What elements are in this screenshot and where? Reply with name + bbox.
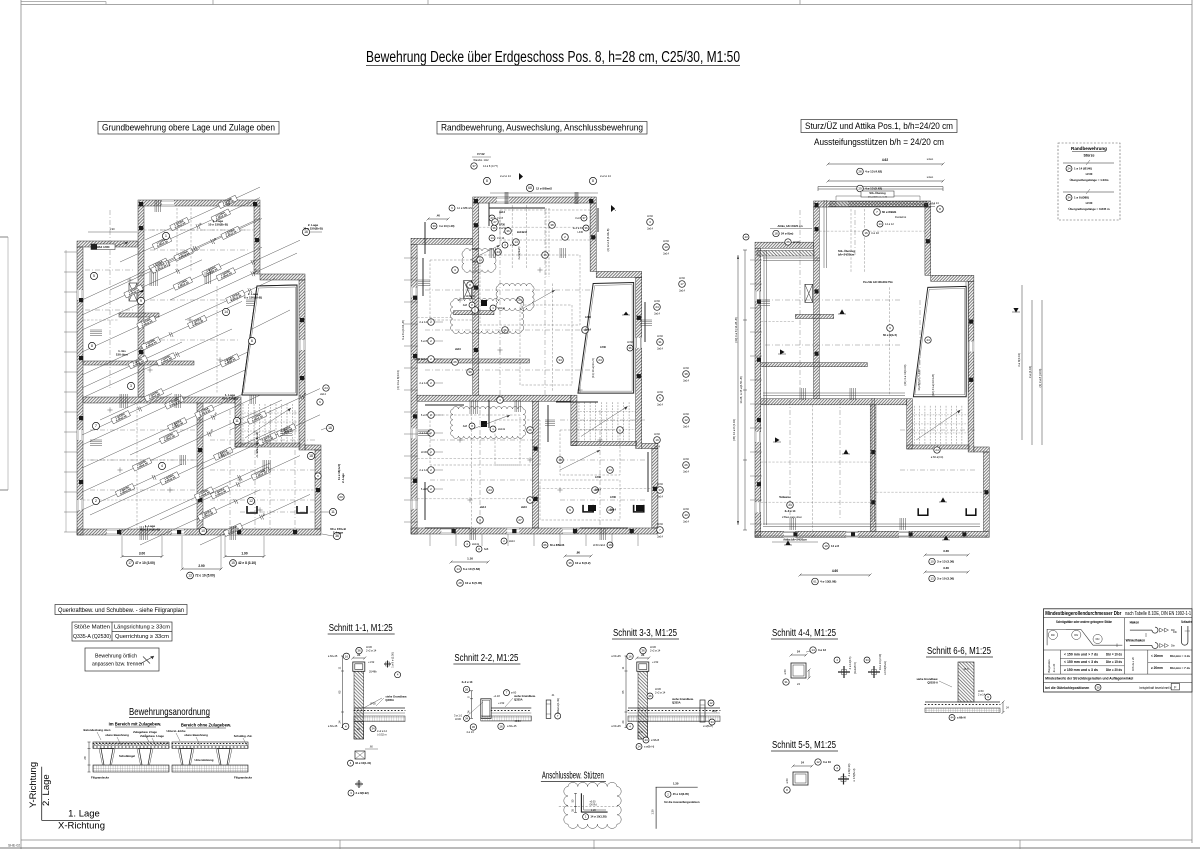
svg-text:12: 12 [816,760,820,764]
svg-text:LF30: LF30 [657,391,663,394]
svg-text:(42) 41 ø(4.04+B): (42) 41 ø(4.04+B) [931,374,935,396]
svg-text:Mindestwerte der Streckbiegera: Mindestwerte der Streckbiegeradien und A… [1045,677,1133,681]
svg-text:2ø14: 2ø14 [683,521,689,524]
svg-text:37: 37 [472,164,476,168]
svg-text:60 e 150(B+B): 60 e 150(B+B) [140,527,160,531]
svg-text:36: 36 [335,534,339,538]
svg-text:LF30: LF30 [654,300,660,303]
svg-text:12 ø 8/BmtS: 12 ø 8/BmtS [457,206,472,210]
svg-text:2ø14: 2ø14 [657,404,663,407]
svg-text:3 ø (4.04): 3 ø (4.04) [1028,366,1032,378]
svg-text:3 ø 8(4.04): 3 ø 8(4.04) [1017,353,1021,367]
svg-text:ø 60 ø(C4): ø 60 ø(C4) [931,455,944,459]
svg-text:12: 12 [709,701,713,705]
svg-text:31: 31 [784,680,788,684]
svg-text:LF30: LF30 [683,508,689,511]
svg-text:Schnitt 5-5, M1:25: Schnitt 5-5, M1:25 [772,740,836,751]
svg-text:2ø14: 2ø14 [683,426,689,429]
svg-text:.60: .60 [369,746,373,749]
svg-text:obere Bewehrung: obere Bewehrung [105,733,129,737]
svg-text:2ø14ü: 2ø14ü [498,307,506,310]
svg-text:14: 14 [514,240,518,244]
svg-text:15: 15 [231,561,235,565]
svg-text:8: 8 [486,179,488,183]
svg-text:Dbr,min = 7 ds: Dbr,min = 7 ds [1170,666,1190,670]
svg-text:40: 40 [684,513,688,517]
svg-text:3 ø 14: 3 ø 14 [497,236,505,240]
svg-text:38: 38 [684,372,688,376]
svg-text:2: 2 [95,499,97,503]
svg-text:26: 26 [648,694,652,698]
svg-text:1 ø 14 (Ø140): 1 ø 14 (Ø140) [1074,167,1092,171]
svg-text:Q2530 A: Q2530 A [927,681,938,685]
svg-text:Stöße Matten: Stöße Matten [74,625,110,631]
svg-text:ø 60: ø 60 [511,690,517,694]
svg-text:a 60+45: a 60+45 [611,724,621,728]
svg-text:2ø14: 2ø14 [654,313,660,316]
svg-text:-1. B/E+ 110 (B+H): -1. B/E+ 110 (B+H) [255,432,259,458]
svg-text:2ø14: 2ø14 [610,509,616,512]
svg-text:60 ø 8/BmtS: 60 ø 8/BmtS [550,544,565,547]
svg-text:LF30: LF30 [683,413,689,416]
svg-text:1.90: 1.90 [208,428,214,435]
svg-text:30bar ø(1.43): 30bar ø(1.43) [556,698,560,714]
svg-text:44: 44 [608,468,612,472]
svg-text:42 e 8 (3.10): 42 e 8 (3.10) [238,561,256,565]
svg-text:bei die Gütekohlepositionen: bei die Gütekohlepositionen [1045,686,1089,690]
svg-text:2 ø 14: 2 ø 14 [419,468,427,472]
svg-text:3 ø 13 (3.36): 3 ø 13 (3.36) [937,560,954,564]
svg-text:60 ø 8(4+5): 60 ø 8(4+5) [883,333,897,337]
svg-text:24: 24 [797,650,800,654]
svg-text:3ø8: 3ø8 [463,304,468,307]
svg-text:4: 4 [161,464,163,468]
svg-text:Bewehrung Decke über Erdgescho: Bewehrung Decke über Erdgeschoss Pos. 8,… [366,49,740,66]
svg-text:2 ø 14: 2 ø 14 [419,320,427,324]
svg-text:2ø14: 2ø14 [647,228,653,231]
svg-text:2+2 ø 14: 2+2 ø 14 [655,691,666,695]
svg-text:(2) 12 ø 8 (4.04+B): (2) 12 ø 8 (4.04+B) [606,229,610,252]
svg-text:10: 10 [201,529,205,533]
svg-text:2+2 ø 14: 2+2 ø 14 [650,649,661,653]
svg-text:6 ø 8: 6 ø 8 [421,487,428,491]
svg-text:65: 65 [338,690,342,693]
svg-text:Q335A: Q335A [672,701,681,705]
svg-text:+1.52: +1.52 [652,661,659,664]
svg-text:Übergreifungslänge = 1.03m: Übergreifungslänge = 1.03m [1070,178,1109,182]
svg-text:4.62: 4.62 [882,158,888,162]
svg-text:36: 36 [506,229,510,233]
svg-text:2ø10: 2ø10 [521,506,527,509]
svg-text:Stb.-Überzug: Stb.-Überzug [838,249,855,253]
svg-text:10 ø 8 (5.35): 10 ø 8 (5.35) [465,581,482,585]
svg-text:Pos.Stb 1x8 100x24/2.75m: Pos.Stb 1x8 100x24/2.75m [863,281,893,284]
svg-text:16: 16 [345,654,349,658]
svg-text:Bereich ohne Zulagebew.: Bereich ohne Zulagebew. [181,723,231,728]
svg-text:61: 61 [813,580,817,584]
svg-text:LF30: LF30 [657,483,663,486]
svg-text:Schlaufen: Schlaufen [1181,620,1192,624]
svg-text:unten: unten [927,157,934,161]
svg-text:30: 30 [432,224,436,228]
svg-text:44: 44 [926,338,930,342]
svg-text:16: 16 [304,230,308,234]
svg-text:ü 0.52 m: ü 0.52 m [377,734,387,737]
svg-text:3 ø 1.0: 3 ø 1.0 [454,714,463,718]
svg-text:33: 33 [658,488,662,492]
svg-text:10: 10 [930,560,934,564]
svg-text:7: 7 [95,424,97,428]
svg-text:(41) 4 ø 13(6.00): (41) 4 ø 13(6.00) [903,364,907,385]
svg-text:24: 24 [801,761,804,765]
svg-text:34: 34 [710,720,714,724]
svg-text:4 ø 13 (4.62): 4 ø 13 (4.62) [865,170,882,174]
svg-text:(43) 6 ø 8 (14.28+B): (43) 6 ø 8 (14.28+B) [734,317,738,342]
svg-text:11: 11 [338,666,342,669]
svg-text:34: 34 [1067,196,1071,200]
svg-text:Attika_b/h=24/20 cm: Attika_b/h=24/20 cm [777,224,803,228]
svg-text:a 68+N: a 68+N [957,716,966,720]
svg-text:27: 27 [518,518,522,522]
svg-text:24: 24 [488,488,492,492]
svg-text:Dunkelrot: Dunkelrot [895,215,906,219]
svg-text:38: 38 [550,223,554,227]
svg-text:(11) 10 ø(4m+5): (11) 10 ø(4m+5) [591,358,595,378]
svg-text:47 e 10 (3.00): 47 e 10 (3.00) [135,561,155,565]
svg-text:44: 44 [950,716,954,720]
svg-text:LF30: LF30 [679,277,685,280]
svg-text:Filigrandecke: Filigrandecke [91,776,109,780]
svg-text:14: 14 [811,648,815,652]
svg-text:24: 24 [655,305,659,309]
svg-text:siehe Grundbew.: siehe Grundbew. [514,694,536,698]
svg-text:Unterstützung: Unterstützung [195,758,214,762]
svg-text:Mindestbiegerollendurchmesser: Mindestbiegerollendurchmesser Dbr [1045,611,1121,617]
svg-text:Schnitt 2-2, M1:25: Schnitt 2-2, M1:25 [454,653,518,664]
svg-text:9: 9 [140,299,142,303]
svg-text:24: 24 [935,448,939,452]
svg-text:2+2 ø 14: 2+2 ø 14 [573,226,584,230]
svg-text:F7.02: F7.02 [477,152,485,156]
svg-text:2.Bew.-lage oben: 2.Bew.-lage oben [782,515,803,519]
svg-text:DIN ds ≤ 20: DIN ds ≤ 20 [1131,657,1135,671]
svg-text:Anschlussbew. Stützen: Anschlussbew. Stützen [542,771,604,782]
svg-text:1: 1 [165,234,167,238]
svg-text:Bewehrungsanordnung: Bewehrungsanordnung [129,706,210,718]
svg-text:a 60+45: a 60+45 [507,724,517,728]
svg-text:35: 35 [571,809,574,812]
svg-text:Winkelhaken: Winkelhaken [1126,639,1146,643]
svg-text:.40: .40 [436,214,440,218]
svg-text:26: 26 [684,463,688,467]
svg-text:3ø8: 3ø8 [463,425,468,428]
svg-text:26: 26 [786,240,790,244]
svg-text:19: 19 [655,438,659,442]
svg-text:44: 44 [644,738,648,742]
svg-text:28: 28 [458,581,462,585]
svg-text:MAX 4.650: MAX 4.650 [97,245,111,249]
svg-text:3.00: 3.00 [139,551,145,555]
svg-text:26: 26 [465,688,469,692]
svg-text:48: 48 [212,237,217,242]
svg-text:2+2 ø 13: 2+2 ø 13 [462,680,473,684]
svg-text:29: 29 [858,187,862,191]
svg-text:LF30: LF30 [654,433,660,436]
svg-text:3 ø 8: 3 ø 8 [575,216,581,220]
svg-text:45 ø 13(3.05): 45 ø 13(3.05) [673,792,689,796]
svg-text:Attika b/h=24/20cm: Attika b/h=24/20cm [783,538,807,542]
svg-text:1.30: 1.30 [651,809,655,815]
svg-text:10 e 150(B+B): 10 e 150(B+B) [208,222,228,226]
svg-text:26: 26 [528,428,532,432]
svg-text:2ø14: 2ø14 [657,496,663,499]
svg-text:ø(B): ø(B) [712,710,717,713]
svg-text:16: 16 [628,654,632,658]
svg-text:LF30: LF30 [1086,201,1093,205]
svg-text:Wandst. 14/2: Wandst. 14/2 [473,158,489,162]
svg-text:11: 11 [621,666,625,669]
svg-text:3 ø 8(0.92): 3 ø 8(0.92) [356,791,369,795]
svg-text:LF30: LF30 [455,717,461,721]
svg-text:Querrichtung ≥ 33cm: Querrichtung ≥ 33cm [115,634,170,640]
svg-text:2ø14: 2ø14 [320,393,326,396]
svg-text:b/h=24/20 cm, C.30: b/h=24/20 cm, C.30 [868,197,888,199]
svg-text:SHE-02: SHE-02 [8,844,20,848]
svg-text:9 ø 8 e(4.04+B): 9 ø 8 e(4.04+B) [401,320,405,340]
svg-text:3 ø 13: 3 ø 13 [818,648,826,652]
svg-text:14(B+S): 14(B+S) [465,295,474,298]
svg-text:44: 44 [496,250,500,254]
svg-text:Bewehrung örtlich: Bewehrung örtlich [95,654,137,660]
svg-text:18: 18 [309,454,313,458]
svg-text:14: 14 [878,222,882,226]
svg-text:Q335-A (Q2530): Q335-A (Q2530) [73,634,111,640]
svg-text:a 60+45: a 60+45 [328,724,338,728]
svg-text:obere Bewehrung: obere Bewehrung [184,733,208,737]
svg-text:1.16: 1.16 [467,557,473,561]
svg-text:LF30: LF30 [585,316,591,319]
svg-text:65: 65 [621,690,625,693]
svg-text:4.60: 4.60 [832,569,838,573]
svg-text:4 ø 8(2.30): 4 ø 8(2.30) [847,764,851,777]
svg-text:Filigrandecke: Filigrandecke [234,776,252,780]
svg-text:Betondeckung oben: Betondeckung oben [84,728,111,732]
svg-text:1.90: 1.90 [241,551,247,555]
svg-text:siehe Grundbew.: siehe Grundbew. [916,677,938,681]
svg-text:2ø14ü: 2ø14ü [498,428,506,431]
svg-text:< 150 mm und > 7 ds: < 150 mm und > 7 ds [1064,653,1098,657]
svg-text:36: 36 [584,226,588,230]
svg-text:.80: .80 [576,551,581,555]
svg-text:8: 8 [91,344,93,348]
svg-text:Zulagebew. 1.lage: Zulagebew. 1.lage [140,734,164,738]
svg-text:Schnitt 1-1, M1:25: Schnitt 1-1, M1:25 [329,623,393,634]
svg-text:6ø8: 6ø8 [484,548,489,551]
svg-text:1 ø 8 e (2.30): 1 ø 8 e (2.30) [391,652,395,668]
svg-text:16: 16 [608,543,612,547]
svg-text:36.5: 36.5 [963,667,969,671]
svg-text:LF30: LF30 [657,523,663,526]
svg-text:4 ø 13(5.08): 4 ø 13(5.08) [820,580,836,584]
svg-text:LF30: LF30 [578,231,584,234]
svg-text:14: 14 [490,236,494,240]
svg-text:2ø14: 2ø14 [679,290,685,293]
svg-text:Schubbügel: Schubbügel [119,754,135,758]
svg-text:2+2 ø 14: 2+2 ø 14 [500,174,511,178]
svg-text:3: 3 [130,384,132,388]
svg-text:2ø14ü: 2ø14ü [472,543,480,546]
svg-text:5: 5 [93,274,95,278]
svg-text:Längsrichtung ≥ 33cm: Längsrichtung ≥ 33cm [114,625,171,631]
svg-text:16: 16 [864,231,868,235]
svg-text:36: 36 [568,561,572,565]
svg-text:36: 36 [472,725,476,729]
svg-text:14 ø 8 (0.77): 14 ø 8 (0.77) [483,164,498,168]
svg-text:19: 19 [824,544,828,548]
svg-text:26: 26 [453,360,457,364]
svg-text:im Bereich mit Zulagebew.: im Bereich mit Zulagebew. [109,722,162,727]
svg-text:X-Richtung: X-Richtung [58,821,105,832]
svg-text:1.20: 1.20 [591,809,596,812]
svg-text:17: 17 [128,561,132,565]
svg-text:Stürze: Stürze [1084,154,1095,158]
svg-text:34 ø 13 (2.30): 34 ø 13 (2.30) [878,654,882,670]
svg-text:11: 11 [235,419,239,423]
svg-text:24: 24 [621,720,625,723]
svg-text:6 ø 8: 6 ø 8 [421,339,428,343]
svg-text:8: 8 [592,179,594,183]
svg-text:LF30: LF30 [370,701,376,705]
svg-text:< 150 mm und < 3 ds: < 150 mm und < 3 ds [1064,660,1098,664]
svg-text:2+2ø(Mat5): 2+2ø(Mat5) [518,246,521,259]
svg-text:1.30: 1.30 [673,782,679,786]
svg-text:(4) 14 ø 8(4.04): (4) 14 ø 8(4.04) [396,370,400,389]
svg-text:28: 28 [858,170,862,174]
svg-text:16: 16 [328,426,332,430]
svg-text:38: 38 [468,370,472,374]
svg-text:24 ø 8(m): 24 ø 8(m) [781,232,793,236]
svg-text:24: 24 [1067,167,1071,171]
svg-text:14 ø 10(1.28): 14 ø 10(1.28) [590,815,606,819]
svg-text:siehe Grundbew.: siehe Grundbew. [385,695,407,699]
svg-text:Unterst.-körbe: Unterst.-körbe [166,729,186,733]
svg-text:31: 31 [658,340,662,344]
svg-text:17: 17 [680,282,684,286]
svg-text:14: 14 [637,745,641,749]
svg-text:Y-Richtung: Y-Richtung [28,762,39,808]
svg-text:24: 24 [797,682,800,686]
svg-text:LF30: LF30 [421,450,428,454]
svg-text:12 ø 8/BmtS: 12 ø 8/BmtS [536,186,552,190]
svg-text:45/84: 45/84 [514,720,521,723]
svg-text:48: 48 [261,512,266,517]
svg-text:Schnitt 4-4, M1:25: Schnitt 4-4, M1:25 [772,628,836,639]
svg-text:37: 37 [582,216,586,220]
svg-text:2ø14: 2ø14 [657,348,663,351]
svg-text:60 ø 8/BüS: 60 ø 8/BüS [882,210,896,214]
svg-text:36: 36 [357,649,361,653]
svg-text:10 ø 8 (6.2): 10 ø 8 (6.2) [575,561,591,565]
svg-text:3.36: 3.36 [943,566,949,570]
svg-text:72 e 10 (5.00): 72 e 10 (5.00) [195,574,215,578]
svg-text:ø 68+B: ø 68+B [651,739,659,742]
svg-text:2. Lage: 2. Lage [333,530,344,534]
svg-text:2 ø 14: 2 ø 14 [419,381,427,385]
svg-text:2+2 ø 14: 2+2 ø 14 [366,649,377,653]
svg-text:2ø10: 2ø10 [455,348,461,351]
svg-text:Dbr = 20 ds: Dbr = 20 ds [1106,668,1122,672]
svg-text:LF30: LF30 [655,687,661,691]
svg-text:50: 50 [571,799,574,802]
svg-text:2+2 ø 14: 2+2 ø 14 [600,174,611,178]
svg-text:60 e 150(B): 60 e 150(B) [222,396,238,400]
svg-text:LF30 2ø14: LF30 2ø14 [593,544,606,547]
svg-text:27: 27 [493,220,497,224]
svg-text:13: 13 [930,577,934,581]
svg-text:16: 16 [499,725,503,729]
svg-text:20/48b: 20/48b [369,670,377,673]
svg-text:4 ø 13: 4 ø 13 [466,730,474,734]
svg-text:(3) 3 ø 8 (4.04): (3) 3 ø 8 (4.04) [1038,369,1042,388]
svg-text:+1.52: +1.52 [498,702,505,705]
svg-text:LF30: LF30 [657,335,663,338]
svg-text:3.36: 3.36 [943,549,949,553]
svg-text:2ø14: 2ø14 [480,506,486,509]
svg-text:14: 14 [456,567,460,571]
svg-text:Grundbewehrung obere Lage und: Grundbewehrung obere Lage und Zulage obe… [102,123,275,133]
svg-text:a 60+45: a 60+45 [611,654,621,658]
svg-text:1.90: 1.90 [212,411,218,418]
svg-text:Biegerollen: Biegerollen [1047,659,1051,673]
svg-text:Teilweise: Teilweise [779,495,791,499]
svg-text:Aussteifungsstützen b/h = 24/2: Aussteifungsstützen b/h = 24/20 cm [814,137,944,147]
svg-text:unten: unten [927,175,934,179]
svg-text:1. Lage: 1. Lage [68,809,100,820]
svg-text:34: 34 [558,358,562,362]
svg-text:LF30: LF30 [610,496,616,499]
svg-text:Schrägstäbe oder andere geboge: Schrägstäbe oder andere gebogene Stäbe [1056,620,1112,624]
svg-text:a 60: a 60 [785,778,789,784]
svg-text:1 ø 8 (Ø88): 1 ø 8 (Ø88) [1074,196,1089,200]
svg-text:LF30: LF30 [793,240,800,244]
svg-text:4 ø 10: 4 ø 10 [871,231,879,235]
svg-text:LF30: LF30 [647,215,653,218]
svg-text:2ø14ü16: 2ø14ü16 [517,231,528,234]
svg-text:LF30: LF30 [366,645,372,649]
svg-text:Dbr: Dbr [1051,634,1055,637]
svg-text:a ø(B+H): a ø(B+H) [644,746,654,749]
svg-text:12: 12 [249,499,253,503]
svg-text:4 ø 13 (5.62): 4 ø 13 (5.62) [865,187,882,191]
svg-text:42 ø 10(1.31): 42 ø 10(1.31) [355,761,371,765]
svg-text:Dbr: Dbr [1074,634,1078,637]
svg-text:Randbewehrung, Auswechslung, A: Randbewehrung, Auswechslung, Anschlussbe… [441,123,643,133]
svg-text:150 über: 150 über [116,352,129,356]
svg-text:30: 30 [1096,685,1100,689]
svg-text:2. Lage: 2. Lage [41,774,52,806]
svg-text:66: 66 [543,543,547,547]
svg-text:ü 0.5(B+H): ü 0.5(B+H) [852,769,856,782]
svg-text:10: 10 [664,245,668,249]
svg-text:2ø14: 2ø14 [595,489,601,492]
svg-text:20: 20 [339,495,343,499]
svg-text:LF30: LF30 [683,458,689,461]
svg-text:3 ø 8: 3 ø 8 [497,216,503,220]
svg-text:6 ø 10 (5.62): 6 ø 10 (5.62) [463,567,480,571]
svg-text:Schubbg. Zul.: Schubbg. Zul. [234,734,253,738]
svg-text:ø ü(B+H): ø ü(B+H) [703,725,713,728]
svg-text:siehe Grundbew.: siehe Grundbew. [672,697,694,701]
